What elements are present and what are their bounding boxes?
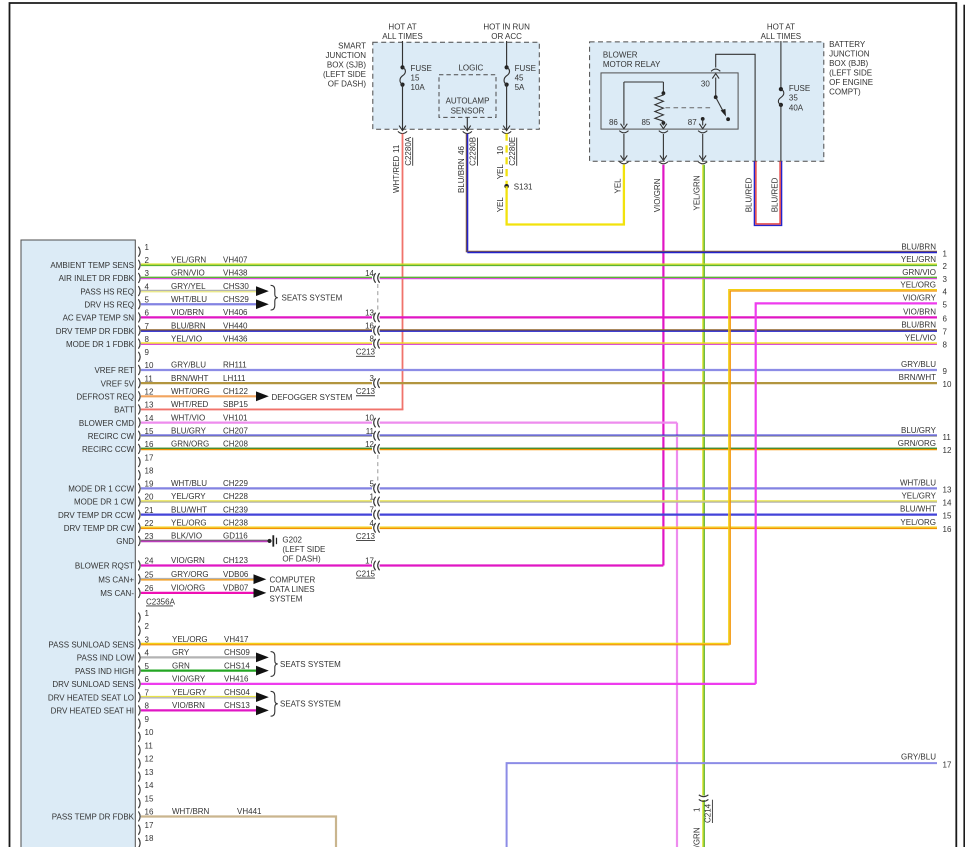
svg-text:4: 4 [943,287,948,296]
svg-text:VIO/GRY: VIO/GRY [903,293,937,302]
label VIO/GRN (relay 85) [653,178,662,212]
svg-text:LH111: LH111 [223,374,246,383]
label YEL/ORG row16 [900,518,952,534]
svg-text:15: 15 [411,73,420,82]
wire pin11 BRN/WHT to right edge [141,382,937,384]
svg-text:(LEFT SIDE: (LEFT SIDE [829,69,872,78]
svg-text:CHS14: CHS14 [224,661,250,670]
svg-text:ALL TIMES: ALL TIMES [382,32,422,41]
svg-text:BLU/GRY: BLU/GRY [171,426,207,435]
label SEATS SYSTEM 2 [280,660,341,669]
wire conn2 pin3 YEL/ORG [141,643,730,644]
connector C214 on YEL/GRN [699,795,709,802]
svg-text:C2280A: C2280A [404,136,413,166]
label DEFOGGER SYSTEM [272,393,353,402]
wire pin13 WHT/RED from fuse15 junction [141,408,403,410]
svg-text:14: 14 [943,499,952,508]
svg-text:3: 3 [943,275,948,284]
svg-text:24: 24 [145,557,154,566]
label YEL/GRN cut at page bottom [693,827,702,847]
relay pin 86 stub [619,82,628,133]
svg-text:87: 87 [688,118,697,127]
svg-text:CH122: CH122 [223,387,248,396]
arrow to seats system pin5 [256,299,269,309]
svg-text:30: 30 [701,80,710,89]
svg-text:9: 9 [145,715,150,724]
svg-text:5: 5 [145,295,150,304]
conn2 wire color and circuit labels [172,635,262,816]
label LOGIC [458,64,483,73]
wire pin23 BLK/VIO to ground [141,540,268,541]
svg-text:BLU/WHT: BLU/WHT [171,505,207,514]
label AUTOLAMP SENSOR [446,96,490,115]
svg-text:BLOWER RQST: BLOWER RQST [75,562,134,571]
svg-text:COMPUTER: COMPUTER [270,576,316,585]
connector C2280B label [469,137,478,166]
svg-text:21: 21 [145,506,154,515]
wire pin10 GRY/BLU to right edge [141,369,937,371]
svg-text:AMBIENT TEMP SENS: AMBIENT TEMP SENS [50,261,134,270]
label BRN/WHT row10 [899,373,952,389]
label BLU/BRN (vertical) [457,158,466,193]
connector C213 pin1 on YEL/GRY [370,493,380,507]
connector C213 pin11 on BLU/GRY [366,427,380,441]
connector C2280A label [404,136,413,166]
svg-text:FUSE: FUSE [411,64,432,73]
ground G202 symbol [267,535,277,546]
svg-text:VH440: VH440 [223,321,248,330]
label COMPUTER DATA LINES SYSTEM [270,576,316,604]
svg-text:CH123: CH123 [223,556,248,565]
label FUSE 35 40A [789,84,810,113]
svg-text:JUNCTION: JUNCTION [326,51,367,60]
wire pin3 GRN/VIO to right edge [141,277,937,278]
svg-text:VIO/GRN: VIO/GRN [653,178,662,212]
label HOT AT ALL TIMES (BJB) [761,23,801,42]
svg-text:BLU/RED: BLU/RED [770,177,779,212]
relay inner box [601,73,738,129]
wire pin12 WHT/ORG to defogger [141,395,256,397]
page edge line right [963,5,965,847]
connector C2356A terminal bumps (pins 1-26) [138,247,140,598]
svg-text:PASS TEMP DR FDBK: PASS TEMP DR FDBK [52,813,135,822]
pin 11 label (C2280A) [392,144,401,153]
svg-text:YEL: YEL [496,164,505,180]
connector C213 pin5 on WHT/BLU [370,479,380,493]
svg-text:SEATS SYSTEM: SEATS SYSTEM [282,294,343,303]
svg-text:16: 16 [365,322,374,331]
svg-text:10: 10 [145,728,154,737]
svg-text:BLU/BRN: BLU/BRN [901,242,936,251]
svg-text:GRY/BLU: GRY/BLU [171,361,206,370]
wire pin24 VIO/GRN to relay pin 85 [141,564,663,566]
label HOT AT ALL TIMES (SJB) [382,23,422,42]
svg-text:YEL/ORG: YEL/ORG [172,635,208,644]
svg-text:18: 18 [145,834,154,843]
svg-text:35: 35 [789,94,798,103]
wire conn2 pin7 YEL/GRY to seats [141,696,256,697]
svg-text:VH407: VH407 [223,256,248,265]
wire pin16 GRN/ORG to right edge [141,448,937,449]
svg-text:COMPT): COMPT) [829,88,861,97]
connector C213 pin13 on VIO/BRN [365,308,380,322]
svg-text:CH229: CH229 [223,479,248,488]
connector C213 pin8 on YEL/VIO [370,335,380,349]
svg-text:VH101: VH101 [223,413,248,422]
svg-text:SEATS SYSTEM: SEATS SYSTEM [280,700,341,709]
autolamp sensor dashed box [439,75,496,118]
wire pin4 GRY/YEL to seats system [141,290,256,291]
wire pin15 BLU/GRY to right edge [141,435,937,436]
label FUSE 45 5A [515,64,536,92]
label BLU/RED (right) [770,177,779,212]
svg-text:9: 9 [145,348,150,357]
svg-text:15: 15 [943,512,952,521]
wire fuse 35 down inside box [780,105,782,161]
wire WHT/VIO vertical down off page [676,423,678,847]
svg-text:VIO/ORG: VIO/ORG [171,584,205,593]
conn1 pin function labels [50,261,134,598]
svg-text:VH417: VH417 [224,635,249,644]
svg-text:VH438: VH438 [223,269,248,278]
svg-text:C2280B: C2280B [469,137,478,166]
svg-text:14: 14 [365,269,374,278]
svg-text:VIO/BRN: VIO/BRN [172,701,205,710]
svg-text:HOT IN RUN: HOT IN RUN [483,23,530,32]
C213 harness dashed line upper [377,284,379,311]
svg-text:DRV HEATED SEAT LO: DRV HEATED SEAT LO [48,693,134,702]
svg-text:YEL/ORG: YEL/ORG [900,280,936,289]
relay pin 85 stub [659,123,668,133]
svg-text:YEL/GRN: YEL/GRN [693,827,702,847]
svg-text:WHT/BLU: WHT/BLU [171,295,207,304]
svg-text:13: 13 [365,308,374,317]
connector C213 pin12 on GRN/ORG [365,440,380,454]
svg-text:15: 15 [145,794,154,803]
fuse F35 40A symbol [778,87,783,107]
connector C213 label (upper) [356,348,376,357]
connector C2280E label [508,137,517,166]
svg-text:11: 11 [392,144,401,153]
svg-text:AUTOLAMP: AUTOLAMP [446,96,490,105]
svg-text:YEL: YEL [613,178,622,194]
svg-text:CH207: CH207 [223,426,248,435]
svg-text:S131: S131 [514,182,533,191]
svg-text:SYSTEM: SYSTEM [270,595,303,604]
svg-text:AIR INLET DR FDBK: AIR INLET DR FDBK [59,274,135,283]
svg-text:CH228: CH228 [223,492,248,501]
connector C213 pin4 on YEL/ORG [370,519,380,533]
svg-text:86: 86 [609,118,618,127]
wire YEL dashed from fuse 45 to S131 [505,134,507,187]
svg-text:BLU/RED: BLU/RED [745,177,754,212]
connector C213 pin10 on WHT/VIO [365,414,380,428]
label BLOWER MOTOR RELAY [603,50,661,69]
svg-text:16: 16 [145,808,154,817]
wire VIO/GRY vertical up to row 5 [756,303,937,683]
label GRN/ORG row12 [898,439,952,455]
label BLU/BRN row7 [901,321,947,337]
wire conn2 pin4 GRY to seats [141,656,256,658]
wire fuse 15 to SJB exit [398,85,407,134]
svg-text:SENSOR: SENSOR [451,106,485,115]
svg-text:6: 6 [145,309,150,318]
svg-text:CHS30: CHS30 [223,282,249,291]
svg-text:VIO/GRY: VIO/GRY [172,675,206,684]
svg-text:GRY/BLU: GRY/BLU [901,360,936,369]
wire row1 BLU/BRN right [467,251,937,252]
svg-text:PASS IND HIGH: PASS IND HIGH [75,667,134,676]
svg-text:C213: C213 [356,348,376,357]
connector C213 pin3 on BRN/WHT [370,374,380,388]
svg-text:VIO/GRN: VIO/GRN [171,556,205,565]
svg-text:RH111: RH111 [223,361,247,370]
arrow to seats system conn2 pin8 [256,706,269,716]
svg-text:12: 12 [145,388,154,397]
svg-text:BLU/WHT: BLU/WHT [900,505,936,514]
svg-text:17: 17 [365,557,374,566]
blower motor relay / battery junction box (dashed) [590,42,824,161]
label BLU/GRY row11 [901,426,951,442]
svg-text:5: 5 [145,662,150,671]
HVAC module connector box [21,240,135,847]
svg-text:14: 14 [145,414,154,423]
svg-text:18: 18 [145,466,154,475]
svg-text:VDB06: VDB06 [223,570,249,579]
relay pin 30 terminal [711,69,720,97]
svg-text:RECIRC CW: RECIRC CW [88,432,135,441]
wire WHT/RED vertical from fuse 15 [402,134,404,410]
label YEL/GRN (relay 87) [693,175,702,210]
svg-text:WHT/ORG: WHT/ORG [171,387,210,396]
svg-text:BATT: BATT [114,406,134,415]
svg-text:45: 45 [515,73,524,82]
svg-text:BRN/WHT: BRN/WHT [171,374,208,383]
svg-text:2: 2 [943,262,948,271]
svg-text:10: 10 [943,380,952,389]
connector C214 label [704,800,713,823]
connector C2356B terminal bumps (pins 1-19) [138,613,140,847]
label SMART JUNCTION BOX (SJB) (LEFT SIDE OF DASH) [323,41,366,88]
svg-text:GND: GND [116,537,134,546]
svg-text:SEATS SYSTEM: SEATS SYSTEM [280,660,341,669]
svg-text:VH436: VH436 [223,334,248,343]
svg-text:BOX (SJB): BOX (SJB) [327,60,366,69]
label SEATS SYSTEM 3 [280,700,341,709]
svg-text:DRV HS REQ: DRV HS REQ [84,300,134,309]
wire pin14 WHT/VIO [141,422,677,424]
wire YEL/GRN relay pin 87 down off page [703,165,704,847]
svg-text:C213: C213 [356,532,376,541]
arrow to computer data lines pin25 [254,574,267,584]
svg-text:GRN/ORG: GRN/ORG [898,439,936,448]
wire YEL from S131 to blower relay pin 86 [507,165,624,225]
label 30 [701,80,710,89]
svg-text:GRY: GRY [172,648,190,657]
svg-text:9: 9 [943,367,948,376]
svg-text:13: 13 [145,401,154,410]
svg-text:BOX (BJB): BOX (BJB) [829,59,868,68]
wire hot feed into fuse 15 [402,41,404,67]
svg-text:12: 12 [943,446,952,455]
svg-text:YEL/GRY: YEL/GRY [172,688,207,697]
C213 harness dashed line lower [377,455,379,482]
svg-text:MS CAN-: MS CAN- [100,589,134,598]
svg-text:11: 11 [145,374,154,383]
svg-text:YEL/ORG: YEL/ORG [900,518,936,527]
svg-text:OR ACC: OR ACC [491,32,522,41]
svg-text:DRV TEMP DR CW: DRV TEMP DR CW [64,524,135,533]
label YEL (above S131) [496,164,505,180]
connector C215 label [356,570,376,579]
svg-text:VIO/BRN: VIO/BRN [903,307,936,316]
svg-text:VH416: VH416 [224,675,249,684]
svg-text:GD116: GD116 [223,532,248,541]
svg-text:10A: 10A [411,83,426,92]
label SEATS SYSTEM 1 [282,294,343,303]
svg-text:DEFROST REQ: DEFROST REQ [76,393,134,402]
svg-text:YEL/VIO: YEL/VIO [171,334,202,343]
label YEL/ORG row4 [900,280,947,296]
label BATTERY JUNCTION BOX (BJB) (LEFT SIDE OF ENGINE COMPT) [829,40,873,97]
svg-text:PASS SUNLOAD SENS: PASS SUNLOAD SENS [48,640,134,649]
svg-text:WHT/RED: WHT/RED [171,400,209,409]
svg-text:BLU/GRY: BLU/GRY [901,426,937,435]
svg-text:1: 1 [145,243,150,252]
label YEL (relay 86) [613,178,622,194]
wire pin25 GRY/ORG to computer data lines [141,579,254,580]
svg-text:JUNCTION: JUNCTION [829,50,870,59]
svg-text:C213: C213 [356,387,376,396]
svg-text:14: 14 [145,781,154,790]
svg-text:DATA LINES: DATA LINES [270,585,315,594]
svg-text:DRV HEATED SEAT HI: DRV HEATED SEAT HI [51,707,134,716]
label YEL/GRN row2 [901,255,948,271]
arrow to seats system conn2 pin4 [256,652,269,662]
wire pin2 YEL/GRN to right edge [141,264,937,265]
label YEL (below S131) [496,197,505,213]
svg-text:OF DASH): OF DASH) [282,554,321,563]
svg-text:YEL/GRN: YEL/GRN [693,175,702,210]
svg-text:17: 17 [145,821,154,830]
connector C213 label (pin3) [356,387,376,396]
wire pin20 YEL/GRY to right edge [141,501,937,502]
svg-text:HOT AT: HOT AT [767,23,795,32]
svg-text:VREF RET: VREF RET [94,366,134,375]
svg-text:BATTERY: BATTERY [829,40,866,49]
conn2 pin function labels [48,640,135,821]
svg-text:GRY/ORG: GRY/ORG [171,570,209,579]
label WHT/BLU row13 [900,478,952,494]
svg-text:C2280E: C2280E [508,137,517,166]
svg-text:PASS IND LOW: PASS IND LOW [77,654,135,663]
connector C2356B pin numbers [145,609,154,847]
svg-text:YEL/ORG: YEL/ORG [171,519,207,528]
svg-text:BLU/BRN: BLU/BRN [901,321,936,330]
label WHT/RED (vertical) [392,155,401,193]
svg-text:GRY/BLU: GRY/BLU [901,753,936,762]
svg-text:BLK/VIO: BLK/VIO [171,532,202,541]
wire BLU/RED u-turn (relay pin30 to fuse 35) [754,161,781,225]
label GRY/BLU row9 [901,360,947,376]
svg-text:OF DASH): OF DASH) [328,79,367,88]
relay switch arm [714,95,726,116]
svg-text:6: 6 [943,314,948,323]
svg-text:MOTOR RELAY: MOTOR RELAY [603,60,661,69]
label YEL/GRY row14 [901,492,951,508]
svg-text:DRV TEMP DR FDBK: DRV TEMP DR FDBK [56,327,135,336]
label 85 [641,118,650,127]
svg-text:AC EVAP TEMP SN: AC EVAP TEMP SN [63,314,135,323]
brace seats system 3 [271,691,278,716]
wire autolamp sensor to SJB exit [463,117,472,133]
svg-text:(LEFT SIDE: (LEFT SIDE [323,70,366,79]
svg-text:11: 11 [145,741,154,750]
label 86 [609,118,618,127]
svg-text:13: 13 [145,768,154,777]
svg-text:BRN/WHT: BRN/WHT [899,373,936,382]
svg-text:CHS13: CHS13 [224,701,250,710]
wire pin22 YEL/ORG to right edge [141,527,937,528]
pin 1 label (C214) [693,807,702,812]
svg-text:YEL/GRY: YEL/GRY [901,492,936,501]
svg-text:7: 7 [370,506,375,515]
svg-text:MODE DR 1 CW: MODE DR 1 CW [74,498,134,507]
svg-text:BLU/BRN: BLU/BRN [171,321,206,330]
svg-text:40A: 40A [789,103,804,112]
svg-text:8: 8 [145,702,150,711]
wire conn2 pin5 GRN to seats [141,670,256,672]
svg-text:WHT/RED: WHT/RED [392,155,401,193]
svg-text:5: 5 [943,300,948,309]
svg-text:8: 8 [943,341,948,350]
svg-text:(LEFT SIDE: (LEFT SIDE [282,545,325,554]
label G202 (LEFT SIDE OF DASH) [282,535,325,563]
svg-text:BLOWER CMD: BLOWER CMD [79,419,134,428]
relay coil (winding) [655,91,665,125]
svg-text:C215: C215 [356,570,376,579]
connector C213 pin16 on BLU/BRN [365,322,380,336]
svg-text:10: 10 [496,145,505,154]
connector C215 pin17 on VIO/GRN [365,557,380,571]
fuse F15 10A symbol [400,65,405,86]
connector C2356A pin numbers 1-26 [145,243,154,593]
svg-text:YEL/GRN: YEL/GRN [171,256,206,265]
wire conn2 pin16 WHT/BRN [141,816,336,847]
svg-text:10: 10 [145,361,154,370]
relay pin exits at box bottom 87 [698,134,707,164]
wire hot feed into fuse 35 [780,41,782,89]
connector C213 pin7 on BLU/WHT [370,506,380,520]
svg-text:5: 5 [370,479,375,488]
wire pin19 WHT/BLU to right edge [141,487,937,489]
label 87 [688,118,697,127]
relay coil top wire (pin 86 branch) [624,82,664,93]
label BLU/BRN row1 [901,242,947,258]
svg-text:4: 4 [145,649,150,658]
label VIO/BRN row6 [903,307,947,323]
wire pin 30 to BLU/RED feed (inside box) [716,54,755,161]
svg-text:MODE DR 1 FDBK: MODE DR 1 FDBK [66,340,135,349]
svg-text:YEL/GRY: YEL/GRY [171,492,206,501]
svg-text:5A: 5A [515,83,525,92]
wire conn2 pin8 VIO/BRN to seats [141,709,256,711]
svg-text:GRN: GRN [172,661,190,670]
svg-text:16: 16 [943,525,952,534]
relay pin 87 stub [698,117,707,133]
svg-text:MODE DR 1 CCW: MODE DR 1 CCW [68,485,134,494]
svg-text:YEL/GRN: YEL/GRN [901,255,936,264]
